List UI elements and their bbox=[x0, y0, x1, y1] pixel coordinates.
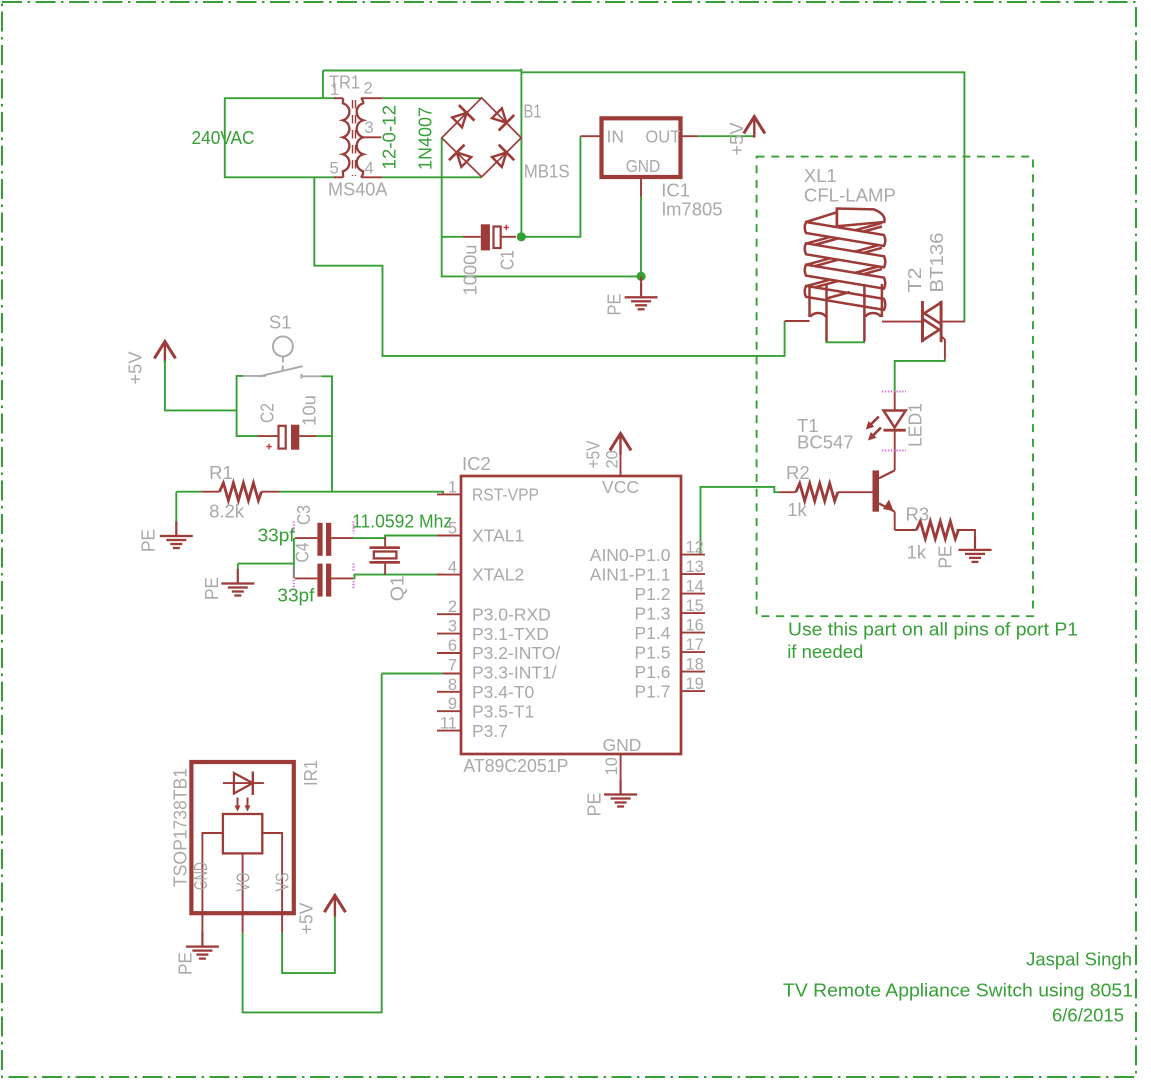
pin 2 P3.0 bbox=[437, 613, 461, 615]
svg-text:Jaspal Singh: Jaspal Singh bbox=[1026, 948, 1132, 969]
svg-text:GND: GND bbox=[626, 156, 661, 176]
pin 9 P3.5 bbox=[437, 710, 461, 712]
microcontroller IC2 AT89C2051P bbox=[437, 450, 705, 780]
svg-text:12-0-12: 12-0-12 bbox=[379, 105, 400, 170]
svg-text:+5V: +5V bbox=[726, 122, 747, 156]
top cap bbox=[837, 209, 885, 227]
svg-text:PE: PE bbox=[175, 952, 196, 975]
svg-text:lm7805: lm7805 bbox=[662, 199, 723, 220]
pin 20 VCC bbox=[620, 453, 622, 476]
svg-text:P1.5: P1.5 bbox=[635, 642, 671, 662]
ground PE (IC2) bbox=[584, 780, 638, 817]
pin 17 P1.5 bbox=[681, 651, 705, 653]
svg-text:4: 4 bbox=[448, 559, 457, 577]
wire C2 right to loop bbox=[316, 435, 332, 437]
svg-text:10: 10 bbox=[603, 757, 621, 775]
svg-text:B1: B1 bbox=[524, 100, 542, 121]
svg-text:Q1: Q1 bbox=[387, 575, 408, 601]
svg-text:15: 15 bbox=[686, 597, 704, 615]
svg-text:P1.4: P1.4 bbox=[635, 623, 671, 643]
dashed option box for port P1 bbox=[757, 157, 1033, 617]
svg-text:TSOP1738TB1: TSOP1738TB1 bbox=[170, 768, 191, 887]
ir receiver IR1 TSOP1738TB1 bbox=[170, 760, 322, 933]
transistor T1 BC547 bbox=[797, 415, 895, 530]
svg-text:GND: GND bbox=[603, 735, 642, 755]
svg-text:GND: GND bbox=[190, 862, 211, 890]
svg-text:PE: PE bbox=[584, 793, 605, 817]
svg-text:P1.7: P1.7 bbox=[635, 681, 671, 701]
wire DC+ vertical through bridge right corner bbox=[520, 69, 522, 237]
lamp XL1 CFL-LAMP bbox=[785, 165, 923, 342]
capacitor C1 1000u bbox=[460, 224, 518, 295]
svg-text:MB1S: MB1S bbox=[524, 161, 570, 182]
svg-text:PE: PE bbox=[935, 546, 956, 569]
wire S1 left leg bbox=[237, 376, 258, 436]
resistor R2 1k bbox=[780, 462, 873, 520]
detector box bbox=[223, 814, 262, 853]
svg-text:1: 1 bbox=[448, 479, 457, 497]
svg-text:18: 18 bbox=[686, 656, 704, 674]
supply +5V (reset circuit) bbox=[125, 342, 176, 385]
svg-text:19: 19 bbox=[686, 675, 704, 693]
node 240VAC source loop bbox=[192, 98, 337, 177]
svg-text:11: 11 bbox=[440, 715, 457, 733]
svg-text:4: 4 bbox=[365, 160, 374, 178]
wire +5V to S1/C2 loop bbox=[165, 360, 237, 410]
svg-text:+5V: +5V bbox=[583, 440, 604, 469]
diode D4 bbox=[489, 145, 514, 170]
wire R1 left down bbox=[175, 492, 177, 522]
wire R1 to IC2 pin1 bbox=[280, 492, 444, 495]
wire triac gate to LED bbox=[895, 359, 945, 392]
spiral front bands (opaque) bbox=[805, 222, 886, 246]
svg-text:17: 17 bbox=[686, 636, 704, 654]
pin 1 RST-VPP bbox=[437, 493, 461, 495]
pin 7 P3.3 bbox=[437, 673, 461, 675]
wire C4 to XTAL2 bbox=[353, 575, 443, 579]
capacitor C2 10u bbox=[256, 395, 319, 450]
ground PE (R1) bbox=[138, 522, 193, 553]
wire C3 to XTAL1 bbox=[353, 536, 443, 539]
svg-text:P1.3: P1.3 bbox=[635, 603, 671, 623]
svg-text:R1: R1 bbox=[209, 462, 233, 483]
svg-text:OUT: OUT bbox=[645, 126, 680, 146]
wire C1+ to IC1 IN bbox=[521, 136, 580, 237]
svg-text:2: 2 bbox=[448, 598, 457, 616]
pin 12 AIN0-P1.0 bbox=[681, 554, 705, 556]
svg-text:P3.2-INTO/: P3.2-INTO/ bbox=[472, 643, 560, 663]
svg-text:7: 7 bbox=[448, 656, 457, 674]
svg-text:3: 3 bbox=[448, 618, 457, 636]
magenta smashed labels near LED bbox=[882, 390, 906, 392]
svg-text:BC547: BC547 bbox=[797, 431, 854, 452]
node DC+ junction dot bbox=[517, 232, 526, 241]
wire AC neutral to lamp bbox=[314, 177, 784, 356]
ground PE (IR1) bbox=[175, 932, 219, 975]
pin 10 GND bbox=[620, 754, 622, 781]
supply +5V (IC1 out) bbox=[726, 117, 765, 156]
svg-text:33pf: 33pf bbox=[277, 585, 315, 606]
title block text bbox=[783, 948, 1133, 1025]
ground PE (IC1) bbox=[604, 276, 658, 315]
svg-text:P3.7: P3.7 bbox=[472, 721, 508, 741]
pin 3 P3.1 bbox=[437, 633, 461, 635]
svg-text:1k: 1k bbox=[787, 499, 807, 520]
svg-text:10u: 10u bbox=[299, 395, 320, 426]
voltage regulator IC1 lm7805 bbox=[580, 118, 722, 219]
wire C3/C4 left join bbox=[293, 538, 295, 578]
wire lamp electrode strap bbox=[825, 341, 865, 343]
svg-text:XTAL1: XTAL1 bbox=[472, 526, 524, 546]
svg-text:IR1: IR1 bbox=[300, 760, 321, 786]
svg-text:CFL-LAMP: CFL-LAMP bbox=[804, 184, 896, 205]
svg-text:6: 6 bbox=[448, 637, 457, 655]
svg-text:14: 14 bbox=[686, 578, 704, 596]
pin 19 P1.7 bbox=[681, 690, 705, 692]
svg-text:12: 12 bbox=[686, 539, 704, 557]
svg-text:PE: PE bbox=[604, 294, 625, 316]
diode D2 bbox=[489, 105, 514, 130]
wire S1 right leg bbox=[321, 376, 332, 491]
svg-text:Use this part on all pins of p: Use this part on all pins of port P1 bbox=[788, 619, 1078, 640]
pin 16 P1.4 bbox=[681, 632, 705, 634]
svg-text:C2: C2 bbox=[256, 403, 277, 423]
svg-text:3: 3 bbox=[365, 119, 374, 137]
pins bbox=[202, 833, 223, 913]
svg-text:PE: PE bbox=[201, 577, 222, 600]
svg-text:P1.2: P1.2 bbox=[635, 584, 671, 604]
svg-text:9: 9 bbox=[448, 695, 457, 713]
svg-text:AT89C2051P: AT89C2051P bbox=[463, 755, 568, 776]
switch S1 bbox=[243, 311, 322, 379]
svg-text:AIN1-P1.1: AIN1-P1.1 bbox=[590, 564, 671, 584]
svg-text:P3.5-T1: P3.5-T1 bbox=[472, 701, 534, 721]
svg-text:IN: IN bbox=[607, 126, 625, 146]
wire OUT to +5V bbox=[698, 135, 755, 137]
pin 5 XTAL1 bbox=[437, 535, 461, 537]
svg-text:P3.4-T0: P3.4-T0 bbox=[472, 682, 535, 702]
svg-text:+5V: +5V bbox=[296, 902, 317, 935]
svg-text:LED1: LED1 bbox=[905, 403, 926, 447]
capacitor C3 33pf bbox=[258, 505, 354, 556]
supply +5V (IR1) bbox=[296, 895, 346, 934]
pin 11 P3.7 bbox=[437, 730, 461, 732]
pin 6 P3.2 bbox=[437, 652, 461, 654]
svg-text:RST-VPP: RST-VPP bbox=[472, 485, 539, 505]
lamp base tubes bbox=[810, 284, 882, 342]
ground PE (R3) bbox=[935, 535, 992, 568]
ground PE (C3C4) bbox=[201, 569, 254, 600]
wire IR1 VS to +5V bbox=[282, 914, 335, 973]
svg-text:1k: 1k bbox=[907, 541, 927, 562]
svg-text:IC2: IC2 bbox=[462, 453, 491, 474]
svg-text:6/6/2015: 6/6/2015 bbox=[1052, 1005, 1124, 1026]
svg-text:XTAL2: XTAL2 bbox=[472, 565, 524, 585]
wire to C1 bbox=[442, 236, 463, 238]
svg-text:P1.6: P1.6 bbox=[635, 662, 671, 682]
wire IC2 pin7 to IR1 VO bbox=[243, 674, 443, 1013]
bridge rectifier B1 bbox=[415, 98, 570, 182]
svg-text:P3.0-RXD: P3.0-RXD bbox=[472, 604, 551, 624]
svg-text:MS40A: MS40A bbox=[328, 179, 388, 200]
wire top rail right to triac bbox=[521, 72, 964, 322]
wire IC2 pin12 to R2 bbox=[701, 487, 780, 555]
svg-text:VS: VS bbox=[272, 873, 293, 892]
pin 14 P1.2 bbox=[681, 593, 705, 595]
resistor R1 8.2k bbox=[201, 462, 279, 521]
svg-text:8: 8 bbox=[448, 676, 457, 694]
svg-text:T2: T2 bbox=[904, 268, 925, 293]
svg-text:1N4007: 1N4007 bbox=[415, 107, 436, 170]
resistor R3 1k bbox=[895, 503, 975, 562]
diode D3 bbox=[449, 145, 474, 170]
triac T2 BT136 bbox=[904, 233, 964, 360]
svg-text:P3.3-INT1/: P3.3-INT1/ bbox=[472, 663, 557, 683]
spiral back diagonals bbox=[807, 223, 882, 247]
wire R1 node line bbox=[176, 491, 201, 493]
svg-text:C3: C3 bbox=[293, 505, 314, 525]
svg-text:R3: R3 bbox=[906, 503, 930, 524]
svg-text:IC1: IC1 bbox=[661, 179, 690, 200]
pin 8 P3.4 bbox=[437, 691, 461, 693]
supply +5V (VCC) bbox=[610, 434, 631, 455]
capacitor C4 33pf bbox=[277, 543, 353, 606]
svg-text:TV Remote Appliance Switch usi: TV Remote Appliance Switch using 8051 bbox=[783, 979, 1133, 1000]
svg-text:5: 5 bbox=[330, 160, 339, 178]
pin 15 P1.3 bbox=[681, 612, 705, 614]
svg-text:AIN0-P1.0: AIN0-P1.0 bbox=[590, 545, 671, 565]
svg-text:16: 16 bbox=[686, 617, 704, 635]
wire top rail left bbox=[323, 70, 522, 72]
svg-text:20: 20 bbox=[604, 450, 622, 468]
svg-text:1000u: 1000u bbox=[460, 245, 481, 296]
crystal Q1 11.0592 Mhz bbox=[352, 510, 452, 601]
wire bridge left corner down to gnd rail bbox=[442, 138, 641, 277]
wire pin1 riser to top rail bbox=[322, 71, 324, 99]
svg-text:R2: R2 bbox=[786, 462, 810, 483]
led LED1 bbox=[866, 392, 926, 471]
wire pin2 to bridge top bbox=[382, 97, 481, 99]
magenta smashed labels near C3/C4 bbox=[352, 522, 354, 534]
svg-text:VCC: VCC bbox=[602, 477, 639, 497]
svg-text:VO: VO bbox=[233, 873, 254, 892]
transformer TR1 bbox=[328, 72, 400, 200]
svg-text:11.0592 Mhz: 11.0592 Mhz bbox=[352, 510, 452, 531]
pin 18 P1.6 bbox=[681, 671, 705, 673]
svg-text:5: 5 bbox=[448, 520, 457, 538]
svg-text:XL1: XL1 bbox=[804, 165, 837, 186]
wire IC1 gnd bbox=[640, 197, 642, 277]
svg-text:S1: S1 bbox=[269, 311, 292, 332]
wire pin4 to bridge bottom bbox=[382, 176, 481, 178]
node gnd junction dot bbox=[637, 272, 646, 281]
svg-text:1: 1 bbox=[330, 81, 339, 99]
svg-text:240VAC: 240VAC bbox=[192, 127, 255, 148]
svg-text:13: 13 bbox=[686, 558, 704, 576]
pin 4 XTAL2 bbox=[437, 574, 461, 576]
svg-text:if needed: if needed bbox=[787, 641, 863, 662]
svg-text:C1: C1 bbox=[497, 250, 518, 270]
svg-text:+5V: +5V bbox=[125, 351, 146, 385]
svg-text:BT136: BT136 bbox=[926, 233, 947, 293]
svg-text:P3.1-TXD: P3.1-TXD bbox=[472, 624, 549, 644]
svg-text:2: 2 bbox=[364, 80, 373, 98]
svg-text:33pf: 33pf bbox=[258, 525, 296, 546]
photodiode bbox=[223, 782, 264, 784]
diode D1 bbox=[449, 105, 474, 130]
wire to PE gnd branch bbox=[238, 564, 294, 570]
pin 13 AIN1-P1.1 bbox=[681, 573, 705, 575]
svg-text:PE: PE bbox=[138, 529, 159, 552]
svg-text:8.2k: 8.2k bbox=[209, 500, 245, 521]
